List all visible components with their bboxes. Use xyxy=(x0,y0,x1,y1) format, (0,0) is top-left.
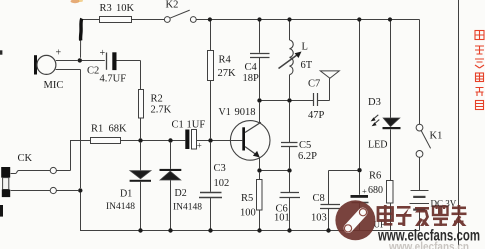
svg-text:R6: R6 xyxy=(369,171,381,182)
node dot D1 bus xyxy=(138,228,142,232)
node jack sleeve junction xyxy=(78,188,82,192)
svg-text:MIC: MIC xyxy=(44,80,64,91)
node dot R5 bus xyxy=(257,228,261,232)
watermark text dianzifashaoyou xyxy=(378,205,467,226)
node dot C6 top xyxy=(287,168,291,172)
artifact thick blob top xyxy=(81,19,82,41)
arrow variable inductor xyxy=(279,55,298,69)
svg-text:K2: K2 xyxy=(166,0,179,11)
svg-text:V1: V1 xyxy=(219,107,231,118)
svg-text:10K: 10K xyxy=(116,3,135,14)
svg-text:+: + xyxy=(56,48,62,59)
capacitor C8 xyxy=(320,205,340,209)
switch K1 xyxy=(416,124,423,131)
node dot VCC tap top xyxy=(357,17,361,21)
node dot C3 bus xyxy=(208,228,212,232)
capacitor C4 xyxy=(259,22,261,53)
wire ground column to bus corner xyxy=(81,192,420,230)
svg-text:2.7K: 2.7K xyxy=(151,105,172,116)
svg-text:IN4148: IN4148 xyxy=(173,203,202,213)
svg-text:6.2P: 6.2P xyxy=(298,151,317,162)
svg-text:+: + xyxy=(362,186,367,196)
capacitor C7 xyxy=(314,93,318,106)
artifact left edge marks xyxy=(0,50,2,54)
switch K2 xyxy=(164,17,170,23)
wire tap to C8 corner xyxy=(329,171,358,205)
svg-text:C2: C2 xyxy=(87,66,99,77)
wire emitter to C6 xyxy=(262,170,288,172)
node dot D2 top xyxy=(168,138,172,142)
resistor R1 xyxy=(91,138,121,144)
svg-text:27K: 27K xyxy=(218,68,237,79)
svg-text:+: + xyxy=(197,141,202,151)
node dot L bottom xyxy=(287,98,291,102)
wire R2 bottom xyxy=(140,118,142,138)
node dot D3 top xyxy=(388,17,392,21)
node dot C4 top xyxy=(257,17,261,21)
resistor R5 xyxy=(259,173,261,180)
red vertical watermark right edge xyxy=(475,31,484,110)
svg-text:D1: D1 xyxy=(120,189,132,200)
resistor R4 xyxy=(210,22,212,51)
svg-text:R1: R1 xyxy=(91,124,103,135)
battery DC 3V xyxy=(411,190,429,192)
svg-text:103: 103 xyxy=(311,213,327,224)
svg-text:DC 3V: DC 3V xyxy=(431,199,457,209)
resistor R2 xyxy=(139,90,144,119)
artifact orange smudge top xyxy=(71,0,80,3)
svg-text:102: 102 xyxy=(214,178,230,189)
svg-text:www.elecfans.com: www.elecfans.com xyxy=(377,228,480,245)
node dot VCC tap xyxy=(357,168,361,172)
svg-text:IN4148: IN4148 xyxy=(106,202,135,212)
LED arrows xyxy=(373,115,379,124)
capacitor C9 electrolytic xyxy=(359,172,361,195)
node dot R4 top xyxy=(208,17,212,21)
svg-text:C5: C5 xyxy=(299,140,311,151)
svg-text:C8: C8 xyxy=(313,193,325,204)
svg-text:L: L xyxy=(302,42,308,53)
capacitor C2 xyxy=(106,53,108,70)
wire mic plus to C2 xyxy=(56,60,105,62)
svg-text:+: + xyxy=(100,48,106,59)
svg-text:C7: C7 xyxy=(308,78,320,89)
diode D3 LED xyxy=(390,22,392,118)
wire VCC tap column xyxy=(359,22,361,169)
node A mic plus junction xyxy=(78,58,82,62)
svg-text:100: 100 xyxy=(240,208,256,219)
svg-text:101: 101 xyxy=(274,213,290,224)
wire top bus xyxy=(82,19,420,21)
svg-text:R5: R5 xyxy=(241,193,253,204)
node dot D1 top xyxy=(138,138,142,142)
svg-text:R3: R3 xyxy=(100,3,112,14)
wire CK riser xyxy=(71,141,91,171)
svg-text:18P: 18P xyxy=(243,73,260,84)
svg-text:C4: C4 xyxy=(245,62,258,73)
wire C1 to base node xyxy=(197,140,243,142)
svg-text:680: 680 xyxy=(368,185,383,196)
capacitor C3 xyxy=(210,143,212,192)
svg-text:K1: K1 xyxy=(430,131,443,142)
node dot L top xyxy=(287,17,291,21)
svg-text:C3: C3 xyxy=(214,163,226,174)
wire right border xyxy=(458,0,460,249)
wire R1 to C1 xyxy=(121,140,186,142)
wire mic minus down column xyxy=(56,70,81,189)
svg-text:6T: 6T xyxy=(301,60,313,71)
wire jack sleeve xyxy=(11,190,51,192)
wire C2 to R2 xyxy=(117,61,141,90)
resistor R6 xyxy=(387,181,394,204)
inductor L xyxy=(289,22,291,41)
diode D1 xyxy=(140,143,142,171)
svg-text:47P: 47P xyxy=(308,110,325,121)
svg-text:D3: D3 xyxy=(368,97,381,108)
svg-text:CK: CK xyxy=(18,153,33,164)
wire mic bias column upper xyxy=(80,21,83,58)
node dot D2 bus xyxy=(168,228,172,232)
svg-text:4.7UF: 4.7UF xyxy=(100,74,127,85)
node dot C6 bus xyxy=(287,228,291,232)
node dot base xyxy=(208,138,212,142)
node dot emitter xyxy=(257,168,261,172)
node dot collector xyxy=(257,98,261,102)
antenna xyxy=(320,71,339,78)
capacitor C6 xyxy=(289,173,291,193)
wire collector node xyxy=(262,100,314,102)
node dot C8 bus xyxy=(326,228,330,232)
transistor V1 xyxy=(230,121,270,161)
wire jack tip xyxy=(11,171,51,174)
diode D2 xyxy=(170,143,172,169)
watermark logo circle xyxy=(335,200,375,240)
svg-text:R2: R2 xyxy=(151,94,163,105)
svg-text:1UF: 1UF xyxy=(187,120,206,131)
svg-text:9018: 9018 xyxy=(235,107,256,118)
capacitor C5 xyxy=(289,103,291,142)
wire K1 drop from bus corner xyxy=(419,20,421,125)
capacitor C1 xyxy=(185,130,189,150)
resistor R3 xyxy=(100,17,132,23)
jack CK xyxy=(1,167,10,178)
svg-text:LED: LED xyxy=(368,140,387,151)
microphone MIC xyxy=(34,55,37,74)
svg-text:68K: 68K xyxy=(109,124,128,135)
svg-text:R4: R4 xyxy=(219,55,232,66)
svg-text:C1: C1 xyxy=(172,120,184,131)
svg-text:D2: D2 xyxy=(175,188,187,199)
